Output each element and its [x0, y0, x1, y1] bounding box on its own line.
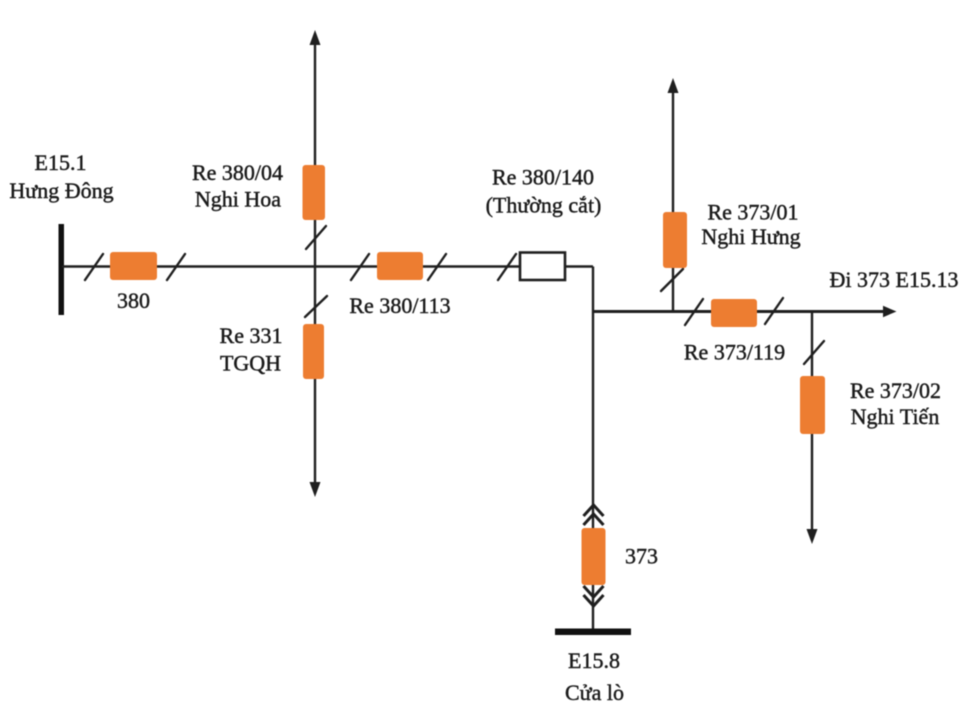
- recloser 380: [110, 252, 157, 280]
- disconnector slash above Re 373/02: [804, 341, 824, 364]
- svg-text:380: 380: [117, 288, 150, 313]
- arrowhead up at top of Re 380/04 branch: [310, 30, 321, 45]
- svg-text:(Thường cắt): (Thường cắt): [486, 193, 602, 218]
- arrowhead down below Re 331: [310, 482, 321, 497]
- svg-text:Hưng Đông: Hưng Đông: [9, 178, 113, 203]
- recloser Re 373/01: [663, 212, 687, 268]
- disconnector slash below Re 373/01: [661, 269, 683, 291]
- svg-text:E15.8: E15.8: [568, 648, 620, 673]
- svg-text:E15.1: E15.1: [35, 150, 87, 175]
- arrowhead down below Re 373/02: [807, 529, 818, 544]
- recloser Re 331: [303, 324, 324, 379]
- svg-text:Re 373/01: Re 373/01: [707, 200, 798, 225]
- disconnector slash S1: [85, 254, 103, 280]
- svg-text:Đi 373 E15.13: Đi 373 E15.13: [830, 267, 959, 292]
- disconnector slash left of Re 373/119: [685, 299, 703, 325]
- recloser Re 373/119: [711, 299, 757, 327]
- disconnector slash above node (Re 380/04 side): [306, 226, 326, 249]
- chevrons up above recloser 373: [584, 505, 604, 516]
- wire vertical Re 373/02 branch: [811, 312, 813, 532]
- wire vertical drop from Re 380/140 corner: [592, 267, 594, 630]
- svg-text:Re 331: Re 331: [220, 323, 283, 348]
- svg-text:Nghi Hoa: Nghi Hoa: [195, 187, 281, 212]
- svg-text:Nghi Tiến: Nghi Tiến: [851, 404, 940, 429]
- disconnector slash S4: [428, 254, 446, 280]
- svg-text:TGQH: TGQH: [220, 351, 281, 376]
- svg-text:Re 380/04: Re 380/04: [192, 160, 283, 185]
- wire vertical through node at x=315: [314, 43, 316, 484]
- arrowhead right Đi 373 E15.13: [883, 306, 897, 317]
- svg-text:373: 373: [625, 544, 658, 569]
- wire vertical Re 373/01 branch: [672, 91, 674, 312]
- svg-text:Cửa lò: Cửa lò: [565, 680, 624, 705]
- disconnector slash S5: [498, 254, 516, 280]
- svg-text:Nghi Hưng: Nghi Hưng: [701, 224, 800, 249]
- disconnector slash S2: [167, 254, 185, 280]
- recloser Re 380/113: [377, 252, 423, 280]
- disconnector slash right of Re 373/119: [765, 298, 783, 324]
- wire lower horizontal 373 feeder: [593, 310, 884, 313]
- recloser 373: [582, 528, 606, 585]
- svg-text:Re 373/119: Re 373/119: [684, 340, 785, 365]
- busbar E15.1: [59, 224, 65, 315]
- disconnector slash S3: [351, 254, 369, 280]
- chevrons down below recloser 373: [584, 586, 604, 597]
- svg-text:Re 380/113: Re 380/113: [349, 293, 450, 318]
- wire main horizontal 380 feeder: [62, 265, 593, 268]
- svg-text:Re 373/02: Re 373/02: [850, 378, 941, 403]
- arrowhead up at top of Re 373/01 branch: [668, 78, 679, 93]
- svg-text:Re 380/140: Re 380/140: [492, 165, 594, 190]
- breaker Re 380/140 (normally open, white): [520, 253, 565, 281]
- disconnector slash below node (Re 331 side): [305, 296, 327, 317]
- busbar E15.8: [555, 629, 631, 636]
- recloser Re 380/04: [303, 165, 326, 220]
- recloser Re 373/02: [800, 376, 825, 434]
